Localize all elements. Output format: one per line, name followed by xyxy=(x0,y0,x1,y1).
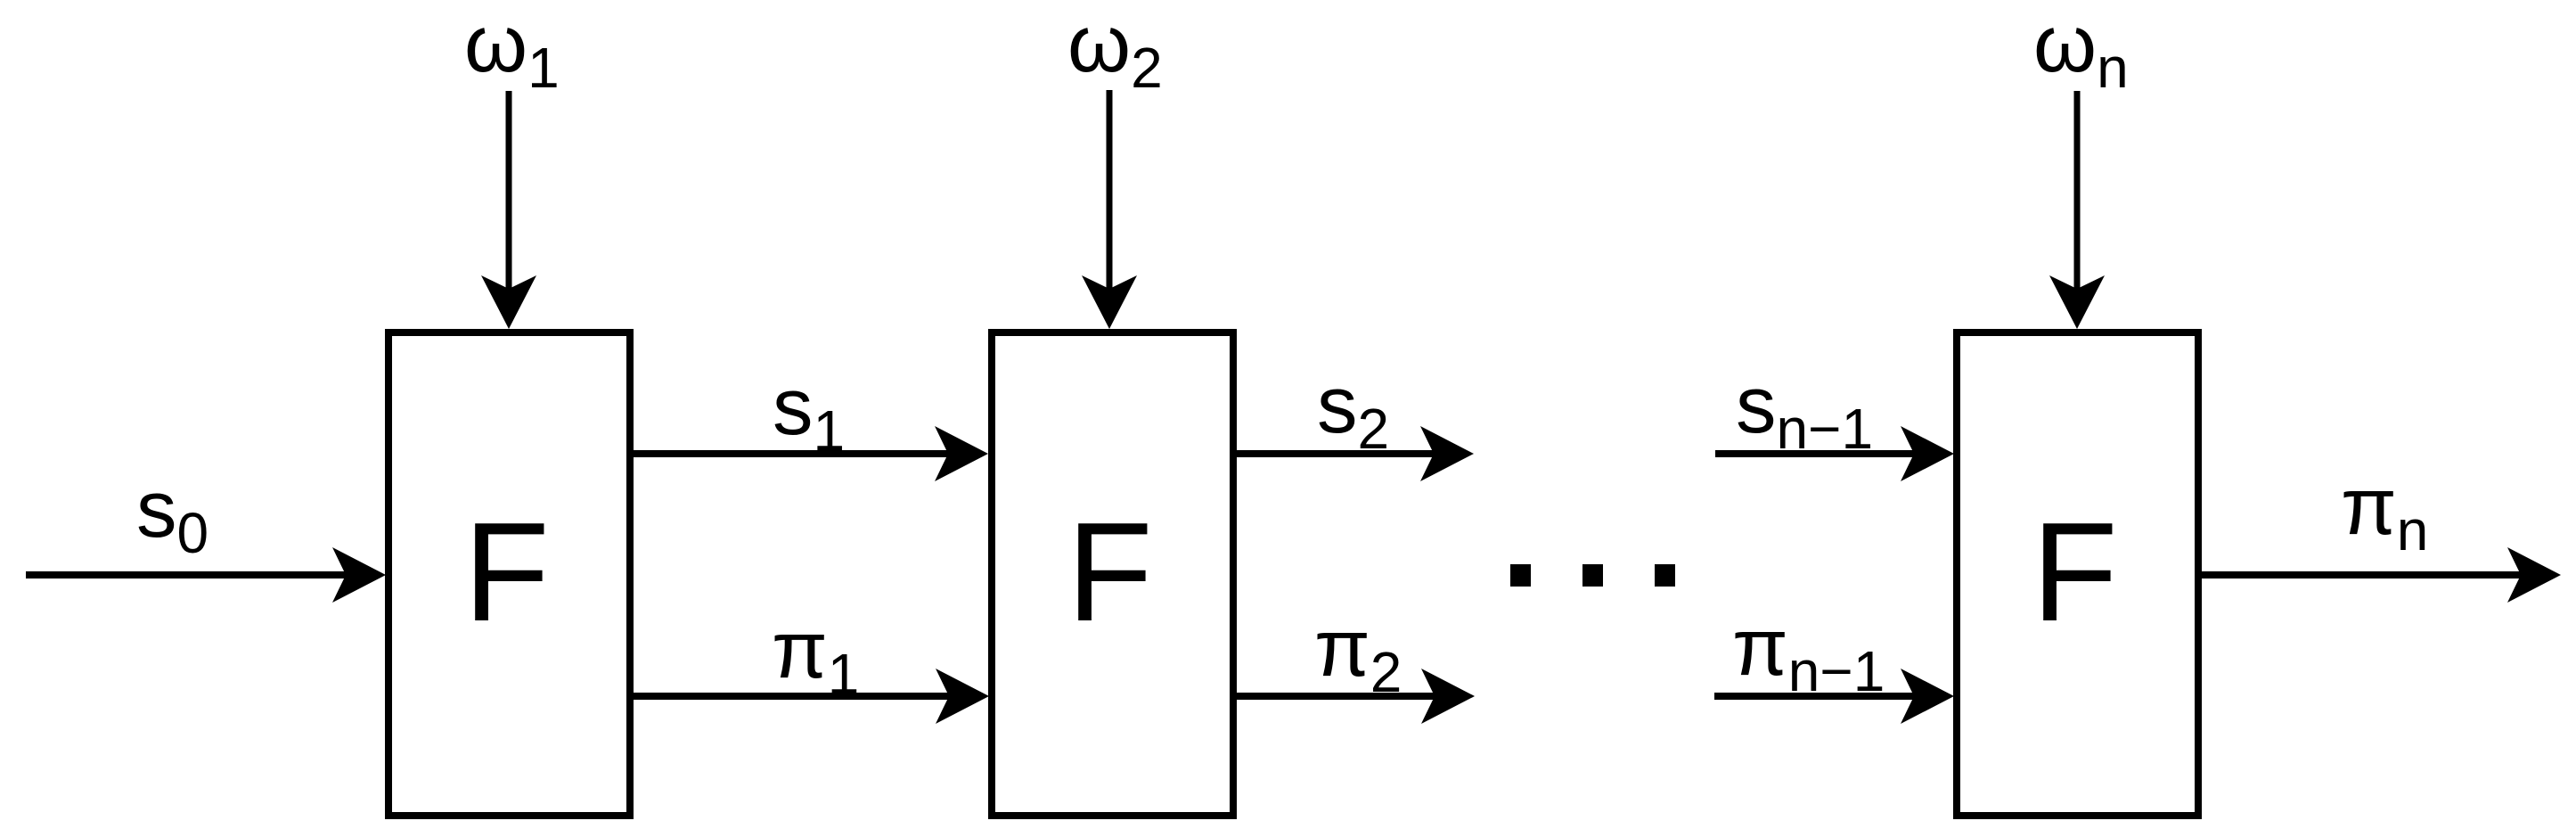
wire s0 input arrow xyxy=(26,547,386,603)
block F3 xyxy=(1957,332,2198,816)
wire pi n-1 xyxy=(1714,669,1954,724)
wire omega1 arrow xyxy=(481,91,536,329)
svg-text:F: F xyxy=(2032,494,2118,651)
block F2 xyxy=(992,332,1233,816)
svg-text:F: F xyxy=(463,494,550,651)
wire s2 xyxy=(1233,426,1474,481)
wire omega2 arrow xyxy=(1082,90,1137,329)
ellipsis dots xyxy=(1510,564,1675,587)
wire pi2 xyxy=(1233,669,1475,724)
svg-text:F: F xyxy=(1067,494,1153,651)
wire pi1 xyxy=(630,669,989,724)
wire omega n arrow xyxy=(2049,91,2105,329)
wire s n-1 xyxy=(1715,426,1954,481)
block F1 xyxy=(388,332,630,816)
wire s1 xyxy=(630,426,988,481)
wire pi n output xyxy=(2198,547,2561,603)
